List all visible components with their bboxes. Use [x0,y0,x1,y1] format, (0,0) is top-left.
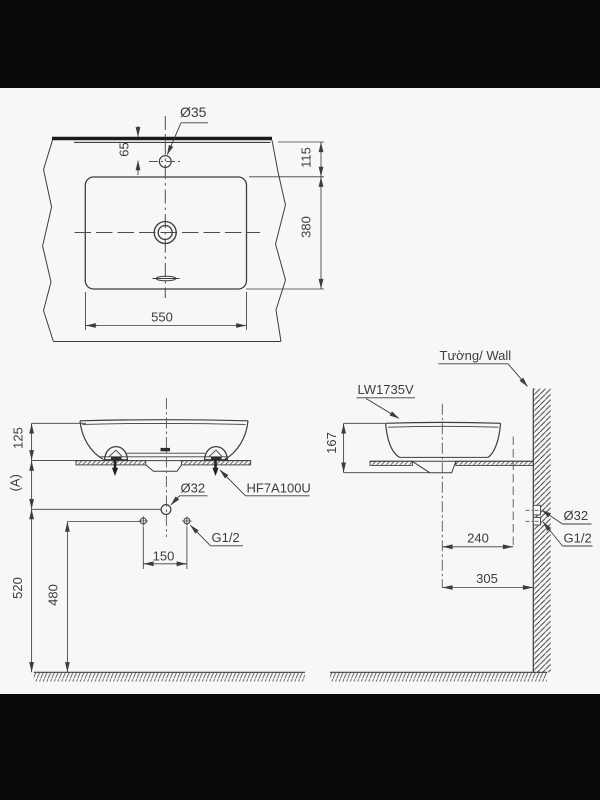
dim 480 vertical line [66,522,68,673]
clamp right plate [209,450,222,456]
svg-text:(A): (A) [8,474,23,491]
leader LW1735V [366,399,399,419]
dim 167 vertical line [343,423,345,472]
svg-text:G1/2: G1/2 [564,531,592,546]
ext line rim bottom right [246,288,324,290]
ext line 150 right [186,527,188,570]
ext line counter right [278,141,324,143]
svg-text:380: 380 [299,216,314,238]
dim 380 arrow down [320,279,322,288]
drain outer circle [154,222,176,244]
overflow slot [156,276,176,281]
svg-text:150: 150 [153,549,175,564]
horizontal centerline through drain [75,232,261,234]
drain hole O32 [161,505,171,515]
fitting centerline lower [526,520,541,522]
basin rim outer top line [80,420,248,421]
svg-text:G1/2: G1/2 [212,530,240,545]
side basin left side [386,423,400,457]
dim 125 arrow up [31,424,33,433]
front centerline [165,398,167,537]
top black bar [0,0,600,88]
basin right side [225,421,249,460]
side centerline [441,404,443,588]
side basin right side [488,423,501,457]
wall hatched body [533,389,551,673]
clamp left plate [109,450,122,456]
svg-text:240: 240 [467,531,489,546]
supply hole left [140,518,146,524]
floor line right [330,671,547,673]
dim line right vertical [320,142,322,289]
ext line 167 bottom [344,472,430,474]
faucet hole [159,156,171,168]
side basin rim outer top [386,421,501,424]
supply hole left ticks [139,516,148,525]
side counter slab hatched left part [370,461,413,465]
basin base line [100,456,228,458]
dim A arrow down [31,500,33,509]
ext line counter top left [32,459,77,461]
counter slab top line [76,460,251,462]
svg-text:HF7A100U: HF7A100U [247,481,311,496]
basin left side [80,421,104,460]
ext line 550 right [246,292,248,330]
svg-text:550: 550 [151,310,173,325]
right break line [272,140,286,341]
leader O32 side [542,510,563,524]
overflow mark [161,448,171,451]
basin rim inner top line [83,423,246,424]
dim 240 arrow left [443,546,452,548]
side basin rim inner top [388,425,499,428]
svg-text:Ø35: Ø35 [180,104,207,120]
dim line 150 [143,563,187,565]
vertical centerline [164,116,166,298]
wall face line [532,389,534,673]
dim 305 arrow right [523,587,532,589]
svg-text:LW1735V: LW1735V [358,382,414,397]
dim 480 arrow down [66,662,68,672]
drain inner circle [158,226,172,240]
ext line 550 left [85,292,87,330]
bottom black bar [0,694,600,800]
side trap outline [413,461,456,472]
svg-text:520: 520 [10,577,25,599]
counter bottom line [53,341,281,343]
dim 520 arrow up [31,510,33,519]
label LW1735V underline [357,397,416,399]
leader G1/2 side [543,522,562,546]
overflow slot line [153,278,180,280]
counter front edge (thick) [52,137,272,140]
leader HF7A100U [220,470,246,496]
bolt right [214,460,217,469]
label G1/2 side underline [563,545,593,547]
dim line 550 [86,325,247,327]
svg-text:Ø32: Ø32 [564,508,589,523]
dim line 240 [442,546,513,548]
wall fitting upper notch [533,505,540,515]
ext line 150 left [142,527,144,570]
svg-text:305: 305 [476,571,498,586]
svg-text:115: 115 [299,147,314,168]
ext line rim top left [32,422,86,424]
dim 305 arrow left [443,587,452,589]
basin bottom line [127,452,206,454]
leader O32 front [171,496,180,505]
ext line 167 top [344,422,385,424]
basin rim (rounded rectangle) [85,177,246,289]
trap outline [146,465,182,471]
dim 480 arrow up [66,522,68,531]
fitting centerline upper [526,509,541,511]
dim 550 arrow left [86,325,97,327]
svg-text:Tường/ Wall: Tường/ Wall [440,348,512,363]
left break line [43,140,54,341]
svg-text:125: 125 [10,427,25,449]
side counter slab top line [370,460,533,462]
leader Tuong/Wall [508,364,528,387]
faucet hole horizontal centerline [149,161,182,163]
counter slab hatched right part [182,461,251,465]
floor hatch right [330,673,547,682]
label O35 underline [181,122,208,124]
label O32 side underline [563,523,592,525]
leader G1/2 front [190,525,210,546]
svg-text:167: 167 [324,432,339,454]
leader O35 [167,123,181,155]
dim 65 arrow top [137,126,139,137]
supply hole right ticks [182,516,191,525]
counter front edge thin lower line [74,141,271,143]
dim 167 arrow up [343,424,345,433]
bolt left arrowhead [112,468,118,476]
clamp right base [211,457,222,460]
dim 65 arrow bottom [137,161,139,175]
side basin base line [400,456,489,458]
svg-text:480: 480 [46,584,61,606]
label HF7A100U underline [246,495,310,497]
dim 115 arrow up [320,143,322,153]
dim 167 arrow down [343,463,345,472]
dim 240 arrow right [503,546,512,548]
side counter slab hatched right part [456,461,534,465]
svg-text:65: 65 [117,142,132,156]
dim 380 arrow up [320,177,322,187]
left dim vertical line [31,423,33,672]
bolt right arrowhead [212,468,218,476]
label O32 underline [180,495,208,497]
dashed line drain offset [512,437,514,548]
clamp right [205,447,228,460]
ext line rim top right [249,176,324,178]
dim A arrow up [31,461,33,469]
ext line 480 level [67,521,140,523]
ext line A level [32,508,161,510]
clamp left [105,447,128,460]
dim 520 arrow down [31,662,33,672]
counter slab hatched left part [76,461,146,465]
clamp left base [111,457,122,460]
dim 150 arrow right [177,563,186,565]
dim 550 arrow right [236,325,246,327]
svg-text:Ø32: Ø32 [181,481,206,496]
floor hatch left [34,673,305,682]
label Tuong/Wall underline [439,363,509,365]
dim 115 arrow down [320,167,322,177]
dim line 305 [442,587,533,589]
label G1/2 underline [211,545,244,547]
floor line left [34,671,305,673]
dim 125 arrow down [31,451,33,460]
wall fitting lower notch [533,517,540,525]
bolt left [114,460,117,469]
dim 150 arrow left [144,563,153,565]
supply hole right [184,518,190,524]
